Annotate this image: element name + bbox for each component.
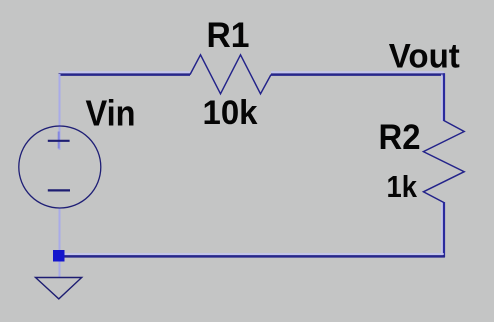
voltage source Vin: circle body [19, 126, 101, 208]
svg-text:Vout: Vout [389, 38, 460, 76]
wire: stub from Vin source bottom to ground node [59, 208, 61, 251]
wire: right rail halo upper [441, 75, 443, 122]
voltage source Vin: minus sign [48, 189, 70, 191]
svg-text:R2: R2 [379, 118, 421, 157]
svg-text:10k: 10k [203, 94, 258, 132]
wire: top rail halo left [60, 71, 191, 73]
voltage source Vin: plus sign vertical stroke [58, 132, 60, 149]
wire: bottom rail (R2 to ground node) [60, 255, 445, 258]
wire: top rail left segment (Vin to R1) [59, 73, 191, 76]
wire: stub from ground node to ground symbol [59, 261, 61, 277]
resistor R2 body (zigzag) [423, 121, 464, 203]
ground symbol [36, 278, 82, 299]
wire: top rail halo right [271, 71, 444, 73]
wire: left stub from top rail into Vin source [59, 74, 61, 150]
wire: top rail right segment (R1 to Vout corner) [271, 73, 445, 76]
voltage source Vin: plus sign horizontal stroke [48, 140, 70, 142]
resistor R1 body (zigzag) [190, 55, 271, 94]
wire: right rail halo lower [441, 202, 443, 255]
svg-text:Vin: Vin [86, 93, 136, 134]
wire: bottom rail halo [60, 253, 444, 255]
wire: right rail upper segment (Vout corner to R2) [443, 73, 445, 121]
node junction square (ground node) [53, 250, 65, 262]
svg-text:R1: R1 [207, 16, 250, 55]
svg-text:1k: 1k [387, 169, 418, 204]
wire: right rail lower segment (R2 to bottom rail) [443, 202, 445, 257]
